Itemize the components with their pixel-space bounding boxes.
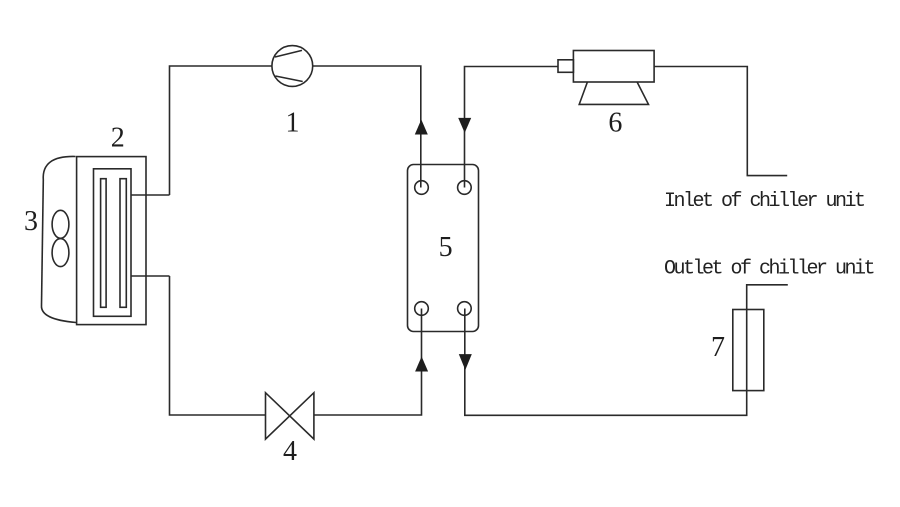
- svg-text:5: 5: [439, 232, 453, 263]
- svg-text:3: 3: [24, 206, 38, 237]
- svg-text:2: 2: [111, 123, 125, 154]
- svg-text:1: 1: [286, 108, 300, 139]
- svg-text:7: 7: [711, 332, 725, 363]
- svg-text:6: 6: [608, 107, 622, 138]
- svg-text:4: 4: [283, 436, 297, 467]
- svg-text:Outlet of chiller unit: Outlet of chiller unit: [664, 258, 874, 281]
- svg-text:Inlet of chiller unit: Inlet of chiller unit: [664, 190, 864, 213]
